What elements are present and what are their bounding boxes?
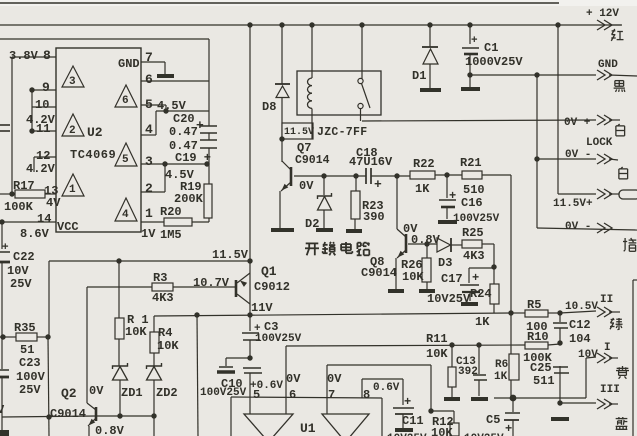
svg-text:390: 390 [363,210,385,224]
svg-text:200K: 200K [174,192,204,206]
svg-text:I: I [604,342,611,354]
svg-text:0V -: 0V - [565,221,591,233]
svg-text:C20: C20 [173,112,195,126]
svg-text:4.5V: 4.5V [157,99,187,113]
svg-text:R4: R4 [158,326,172,340]
svg-text:C11: C11 [402,414,424,428]
svg-text:C9014: C9014 [361,266,397,280]
svg-text:ZD1: ZD1 [121,386,143,400]
svg-text:7: 7 [145,50,153,65]
svg-text:C23: C23 [19,356,41,370]
svg-text:R6: R6 [495,359,508,371]
svg-text:10: 10 [35,98,49,112]
svg-text:+: + [2,242,9,254]
svg-text:10V: 10V [7,264,29,278]
svg-text:10.5V: 10.5V [565,301,598,313]
svg-text:1000V25V: 1000V25V [465,55,523,69]
svg-text:R5: R5 [527,298,541,312]
svg-text:Q1: Q1 [261,264,277,279]
svg-text:25V: 25V [10,277,32,291]
svg-text:8: 8 [363,388,370,402]
svg-text:100V25V: 100V25V [453,213,500,225]
svg-text:12: 12 [36,149,50,163]
svg-text:R22: R22 [413,157,435,171]
svg-text:Q7: Q7 [297,141,311,155]
svg-text:10V25V: 10V25V [427,292,471,306]
svg-text:4: 4 [145,122,153,137]
svg-text:ZD2: ZD2 [156,386,178,400]
svg-text:0V: 0V [286,372,301,386]
svg-text:1M5: 1M5 [160,228,182,242]
svg-text:R3: R3 [153,271,167,285]
svg-text:11.5V: 11.5V [212,248,249,262]
svg-text:4V: 4V [46,196,61,210]
svg-text:GND: GND [598,59,618,71]
svg-text:0V: 0V [327,372,342,386]
svg-text:510: 510 [463,183,485,197]
svg-text:+: + [471,35,478,47]
svg-text:C16: C16 [461,196,483,210]
svg-text:D8: D8 [262,100,276,114]
svg-text:11: 11 [36,122,50,136]
svg-text:47U16V: 47U16V [349,155,393,169]
svg-text:JZC-7FF: JZC-7FF [317,126,367,139]
svg-text:10K: 10K [125,325,147,339]
svg-text:0.47: 0.47 [169,125,198,139]
svg-text:5: 5 [253,388,260,402]
svg-text:Q2: Q2 [61,386,77,401]
svg-text:10K: 10K [431,426,453,436]
svg-text:D3: D3 [438,256,452,270]
svg-text:+ 12V: + 12V [586,8,619,20]
svg-text:+: + [505,422,512,436]
svg-text:4K3: 4K3 [152,291,174,305]
svg-text:GND: GND [118,57,140,71]
svg-text:C1: C1 [484,41,498,55]
svg-text:1: 1 [69,184,76,196]
svg-text:100K: 100K [4,200,34,214]
svg-text:0V -: 0V - [565,149,591,161]
svg-text:5: 5 [145,97,153,112]
svg-text:4K3: 4K3 [463,249,485,263]
svg-text:2: 2 [69,125,76,137]
svg-text:392: 392 [458,366,478,378]
svg-text:10V: 10V [578,349,598,361]
svg-text:11.5V+: 11.5V+ [553,198,593,210]
svg-text:1K: 1K [494,371,508,383]
svg-text:0.8V: 0.8V [95,424,125,436]
svg-text:3: 3 [145,154,153,169]
svg-text:C9014: C9014 [50,407,86,421]
svg-text:C17: C17 [441,272,463,286]
svg-text:511: 511 [533,374,555,388]
svg-text:C3: C3 [264,320,278,334]
svg-text:R17: R17 [13,179,35,193]
svg-text:U2: U2 [87,125,103,140]
svg-text:6: 6 [289,388,296,402]
svg-text:14: 14 [37,212,51,226]
svg-text:10K: 10K [157,339,179,353]
svg-text:+: + [449,189,456,203]
svg-text:1: 1 [145,206,153,221]
svg-text:R35: R35 [14,321,36,335]
svg-text:5: 5 [122,154,129,166]
svg-text:0V: 0V [89,384,104,398]
svg-text:III: III [600,384,620,396]
svg-text:II: II [600,294,613,306]
svg-text:51: 51 [20,343,34,357]
svg-text:C12: C12 [569,318,591,332]
svg-text:+: + [472,271,479,285]
svg-text:D1: D1 [412,69,426,83]
svg-text:C9012: C9012 [254,280,290,294]
svg-text:8.6V: 8.6V [20,227,50,241]
svg-text:6: 6 [145,72,153,87]
svg-text:100V: 100V [16,370,46,384]
svg-text:+: + [374,177,382,192]
svg-text:C5: C5 [486,413,500,427]
svg-text:8: 8 [43,48,51,63]
svg-text:R11: R11 [426,332,448,346]
svg-text:C22: C22 [13,250,35,264]
svg-text:3.8V: 3.8V [9,49,39,63]
svg-text:11.5V: 11.5V [284,127,314,138]
svg-text:C25: C25 [530,361,552,375]
svg-text:R24: R24 [470,287,492,301]
svg-text:R10: R10 [527,330,549,344]
svg-text:7: 7 [328,388,335,402]
svg-text:C9014: C9014 [295,154,330,167]
svg-text:C19 +: C19 + [175,151,211,165]
svg-text:25V: 25V [19,383,41,397]
svg-text:4: 4 [122,209,129,221]
svg-text:0.8V: 0.8V [411,233,441,247]
svg-text:R21: R21 [460,156,482,170]
svg-text:100V25V: 100V25V [255,333,302,345]
svg-text:6: 6 [122,95,129,107]
svg-text:100V25V: 100V25V [200,387,247,399]
svg-text:3: 3 [69,76,76,88]
svg-text:1K: 1K [475,315,490,329]
svg-text:11V: 11V [251,301,273,315]
svg-text:+: + [404,395,411,409]
svg-text:R25: R25 [462,226,484,240]
svg-text:TC4069: TC4069 [70,148,116,162]
svg-text:9: 9 [42,80,50,95]
svg-text:1V: 1V [141,227,156,241]
svg-text:D2: D2 [305,217,319,231]
svg-text:0V: 0V [299,179,314,193]
svg-text:VCC: VCC [57,220,79,234]
svg-text:1K: 1K [415,182,430,196]
svg-text:4.2V: 4.2V [26,162,56,176]
svg-text:10K: 10K [402,270,424,284]
svg-text:10K: 10K [426,347,448,361]
svg-text:LOCK: LOCK [586,137,613,149]
svg-text:2: 2 [145,181,153,196]
svg-text:104: 104 [569,332,591,346]
svg-text:U1: U1 [300,421,316,436]
svg-text:0V +: 0V + [564,117,591,129]
svg-text:10.7V: 10.7V [193,276,230,290]
svg-text:0.6V: 0.6V [373,382,400,394]
svg-text:R20: R20 [160,205,182,219]
